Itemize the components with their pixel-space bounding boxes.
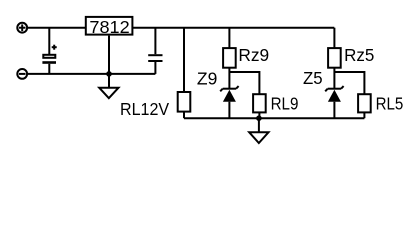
wire Z5 anode lead [333, 102, 335, 119]
ground 2 [249, 118, 268, 143]
wire top rail [28, 27, 334, 29]
terminal + [17, 23, 27, 33]
resistor RL9 [253, 94, 266, 112]
junction node 2 [256, 115, 262, 121]
wire branch to RL9 [229, 72, 259, 94]
wire branch to RL5 [334, 72, 364, 94]
wire Z9 anode lead [228, 102, 230, 119]
svg-text:Rz9: Rz9 [238, 45, 269, 65]
wire Rz5 bottom lead [333, 68, 335, 88]
wire Rz9 bottom lead [228, 68, 230, 88]
resistor RL5 [358, 94, 371, 112]
wire RL5 bottom lead [363, 112, 365, 118]
capacitor C2 [148, 28, 162, 74]
svg-text:RL5: RL5 [376, 94, 404, 114]
svg-text:Rz5: Rz5 [344, 45, 374, 65]
wire U1 ground pin [108, 36, 110, 74]
terminal - [17, 69, 27, 79]
wire bottom-left rail [28, 73, 155, 75]
zener Z5 [325, 86, 343, 102]
junction node [106, 71, 112, 77]
wire RL12V bottom lead [183, 112, 185, 119]
wire RL12V top lead [183, 28, 185, 92]
regulator U1 7812 [86, 17, 133, 37]
wire RL9 bottom lead [258, 112, 260, 118]
ground [99, 74, 118, 98]
svg-text:Z9: Z9 [197, 68, 217, 88]
capacitor C1 [42, 28, 56, 74]
resistor RL12V [178, 92, 191, 112]
resistor Rz9 [223, 48, 236, 68]
svg-text:Z5: Z5 [303, 68, 323, 88]
wire Rz9 top lead [228, 28, 230, 48]
zener Z9 [220, 86, 238, 102]
svg-text:RL12V: RL12V [120, 99, 170, 119]
svg-text:RL9: RL9 [271, 94, 299, 114]
wire bottom-right rail [184, 117, 364, 119]
wire Rz5 top lead [333, 28, 335, 48]
resistor Rz5 [328, 48, 341, 68]
svg-text:7812: 7812 [89, 17, 129, 37]
